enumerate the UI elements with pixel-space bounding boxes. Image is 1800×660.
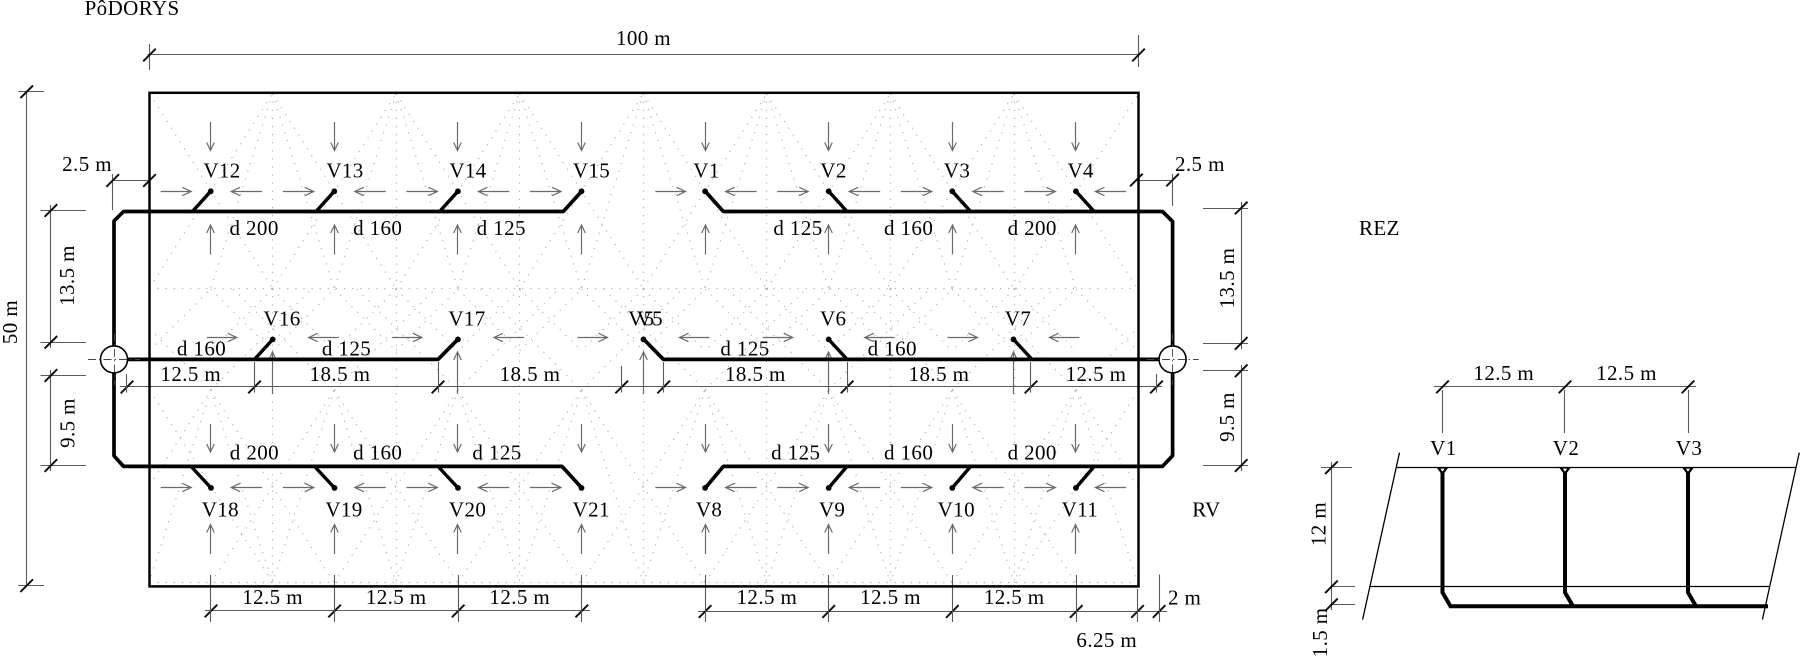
main loop pipe right + top-right lateral + bottom-right lateral	[705, 191, 1172, 488]
svg-text:V2: V2	[1553, 436, 1579, 460]
spray arrows top row	[161, 122, 1126, 255]
svg-text:12.5 m: 12.5 m	[1596, 361, 1657, 385]
svg-text:V19: V19	[325, 498, 362, 522]
svg-text:d 160: d 160	[353, 216, 402, 240]
svg-text:d 200: d 200	[1008, 216, 1057, 240]
REZ dimension 12 m	[1307, 461, 1356, 611]
svg-text:d 200: d 200	[229, 216, 278, 240]
svg-text:1.5 m: 1.5 m	[1308, 607, 1332, 657]
svg-text:18.5 m: 18.5 m	[909, 362, 970, 386]
hydrant circle right	[1147, 333, 1199, 385]
svg-text:V12: V12	[203, 158, 240, 182]
svg-text:9.5 m: 9.5 m	[1215, 392, 1239, 442]
dimension 100 m top	[143, 26, 1145, 70]
dimension 9.5 m right	[1203, 365, 1248, 472]
svg-text:18.5 m: 18.5 m	[725, 362, 786, 386]
svg-text:12.5 m: 12.5 m	[860, 585, 921, 609]
svg-text:d 160: d 160	[884, 216, 933, 240]
svg-text:V9: V9	[819, 498, 845, 522]
svg-text:9.5 m: 9.5 m	[56, 398, 80, 448]
svg-text:d 125: d 125	[322, 337, 371, 361]
svg-text:V14: V14	[449, 158, 486, 182]
svg-text:V2: V2	[820, 158, 846, 182]
svg-text:12.5 m: 12.5 m	[160, 362, 221, 386]
REZ dimension 12.5 m chain	[1434, 361, 1696, 433]
hydrant circle left	[88, 333, 140, 385]
REZ riser V1 + supply pipe	[1443, 471, 1769, 606]
svg-text:12.5 m: 12.5 m	[1473, 361, 1534, 385]
svg-text:18.5 m: 18.5 m	[310, 362, 371, 386]
svg-text:V21: V21	[573, 498, 610, 522]
spray arrows middle row	[207, 333, 1080, 394]
svg-text:12.5 m: 12.5 m	[366, 585, 427, 609]
svg-text:V15: V15	[573, 158, 610, 182]
svg-text:d 125: d 125	[720, 337, 769, 361]
sprinkler stubs middle	[255, 339, 273, 359]
svg-text:RV: RV	[1192, 497, 1220, 521]
bottom-left dimension chain	[205, 575, 590, 622]
svg-text:V5: V5	[637, 306, 663, 330]
dimension 50 m left	[0, 86, 44, 592]
svg-text:d 200: d 200	[230, 441, 279, 465]
svg-text:d 125: d 125	[477, 216, 526, 240]
svg-text:d 160: d 160	[868, 337, 917, 361]
svg-text:2.5 m: 2.5 m	[62, 152, 112, 176]
svg-text:V3: V3	[1676, 436, 1702, 460]
svg-text:d 160: d 160	[353, 441, 402, 465]
sprinkler stubs top	[192, 191, 210, 211]
REZ left slant line	[1363, 453, 1400, 620]
svg-text:50 m: 50 m	[0, 300, 22, 344]
svg-text:2.5 m: 2.5 m	[1175, 152, 1225, 176]
svg-text:V8: V8	[696, 498, 722, 522]
svg-text:V3: V3	[944, 158, 970, 182]
REZ ground surface line	[1396, 467, 1796, 469]
dimension 2.5 m top-left	[62, 152, 156, 210]
coverage lattice (dotted)	[149, 94, 1139, 584]
svg-text:V18: V18	[202, 498, 239, 522]
svg-text:12.5 m: 12.5 m	[984, 585, 1045, 609]
middle dimension chain	[120, 362, 1163, 393]
dimension 9.5 m left	[41, 369, 87, 472]
svg-text:12.5 m: 12.5 m	[737, 585, 798, 609]
svg-text:V11: V11	[1062, 498, 1099, 522]
svg-text:6.25 m: 6.25 m	[1076, 628, 1137, 652]
REZ right slant line	[1762, 453, 1799, 620]
middle-left lateral	[127, 339, 458, 359]
svg-text:PôDORYS: PôDORYS	[85, 0, 180, 20]
svg-text:100 m: 100 m	[616, 26, 671, 50]
svg-text:12.5 m: 12.5 m	[1066, 362, 1127, 386]
sprinkler stubs bottom	[191, 466, 211, 488]
svg-text:V13: V13	[326, 158, 363, 182]
svg-text:V4: V4	[1067, 158, 1094, 182]
svg-text:12.5 m: 12.5 m	[489, 585, 550, 609]
svg-text:13.5 m: 13.5 m	[55, 245, 79, 306]
svg-text:13.5 m: 13.5 m	[1215, 248, 1239, 309]
svg-text:d 160: d 160	[177, 337, 226, 361]
dimension 13.5 m right	[1203, 202, 1248, 350]
dimension 2.5 m top-right	[1130, 152, 1225, 206]
svg-text:d 160: d 160	[884, 441, 933, 465]
svg-text:V6: V6	[820, 306, 846, 330]
svg-text:V10: V10	[938, 498, 975, 522]
sprinkler dots	[208, 188, 1079, 490]
svg-text:V16: V16	[263, 306, 300, 330]
svg-text:2 m: 2 m	[1168, 586, 1201, 610]
field outline	[150, 93, 1139, 587]
svg-text:d 125: d 125	[773, 216, 822, 240]
svg-text:18.5 m: 18.5 m	[500, 362, 561, 386]
svg-text:d 200: d 200	[1008, 441, 1057, 465]
spray arrows bottom row	[161, 424, 1126, 554]
middle-right lateral	[644, 339, 1160, 359]
dimension 13.5 m left	[41, 204, 87, 348]
bottom-right dimension chain	[698, 575, 1201, 653]
REZ valve markers	[1437, 467, 1449, 475]
svg-text:V1: V1	[693, 158, 719, 182]
REZ lower ground line	[1370, 586, 1770, 588]
svg-text:d 125: d 125	[771, 441, 820, 465]
main loop pipe left + top-left lateral + bottom-left lateral	[114, 191, 582, 488]
svg-text:V1: V1	[1430, 436, 1456, 460]
svg-text:V20: V20	[449, 498, 486, 522]
REZ riser V3	[1688, 471, 1696, 606]
svg-text:V17: V17	[448, 306, 485, 330]
svg-text:d 125: d 125	[472, 441, 521, 465]
svg-text:V7: V7	[1005, 306, 1031, 330]
REZ riser V2	[1565, 471, 1573, 606]
svg-text:12.5 m: 12.5 m	[242, 585, 303, 609]
svg-text:12 m: 12 m	[1307, 502, 1331, 546]
svg-text:REZ: REZ	[1359, 216, 1400, 240]
